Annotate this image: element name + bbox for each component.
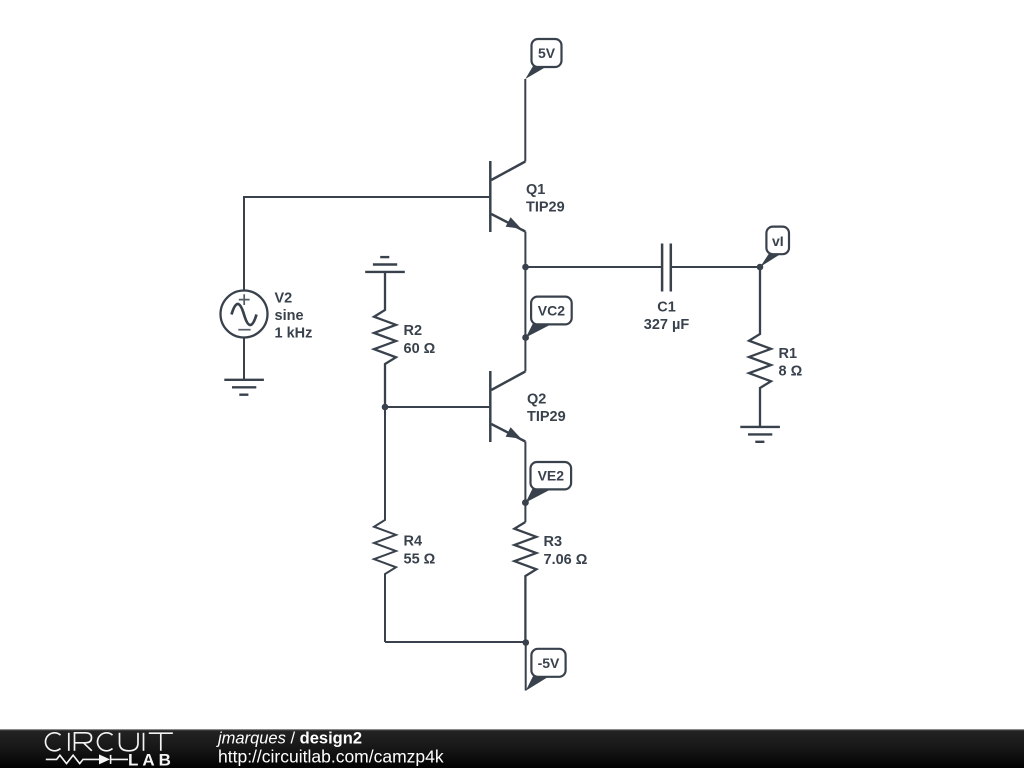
ground (under V2) xyxy=(224,380,264,395)
svg-text:R3: R3 xyxy=(544,534,563,550)
label R2 value xyxy=(404,323,436,357)
resistor R3 xyxy=(514,522,536,642)
wire: Q2 emitter down to R3 xyxy=(524,442,526,523)
Q2 emitter arrow xyxy=(506,427,522,439)
Q1 emitter arrow xyxy=(506,217,522,229)
power flag 5V xyxy=(525,39,561,79)
svg-text:R4: R4 xyxy=(404,534,423,550)
voltage source V2 xyxy=(221,291,268,338)
label C1 value xyxy=(644,300,690,334)
wire: V2 bottom lead xyxy=(243,338,245,380)
svg-text:LAB: LAB xyxy=(128,751,175,768)
ground (inverted, above R2) xyxy=(365,257,405,272)
ground (under R1) xyxy=(740,427,780,442)
svg-text:jmarques / design2: jmarques / design2 xyxy=(216,730,362,748)
label Q1 xyxy=(526,182,565,216)
svg-text:-5V: -5V xyxy=(538,655,560,671)
net flag VC2 xyxy=(522,297,572,341)
svg-text:R1: R1 xyxy=(779,346,798,362)
svg-text:VC2: VC2 xyxy=(538,303,565,319)
svg-text:5V: 5V xyxy=(538,45,556,61)
wire: node down to Q2 collector xyxy=(524,267,526,372)
svg-text:V2: V2 xyxy=(275,291,293,307)
svg-text:60 Ω: 60 Ω xyxy=(404,341,436,357)
net flag VE2 xyxy=(522,462,571,506)
logo CIRCUIT (drawn letters) xyxy=(45,733,172,751)
wire: bottom rail R4 to R3 xyxy=(385,641,526,643)
label R4 value xyxy=(404,534,436,568)
svg-text:55 Ω: 55 Ω xyxy=(404,552,436,568)
wire: Q1 emitter down to node xyxy=(524,232,526,268)
junction node (base node) xyxy=(382,404,389,411)
net flag vI xyxy=(760,227,789,267)
junction node (output node) xyxy=(522,264,529,271)
svg-text:Q2: Q2 xyxy=(527,392,546,408)
svg-text:TIP29: TIP29 xyxy=(527,409,566,425)
wire: Q2 base from node xyxy=(385,406,489,408)
wire: stub to -5V anchor xyxy=(525,643,527,691)
logo resistor-diode glyph xyxy=(46,755,128,764)
label V2 value xyxy=(275,291,313,342)
wire: node to C1 left plate xyxy=(526,266,663,268)
wire: C1 right plate to vI node xyxy=(671,266,760,268)
resistor R1 xyxy=(749,267,771,427)
svg-text:sine: sine xyxy=(275,308,304,324)
svg-text:7.06 Ω: 7.06 Ω xyxy=(544,552,588,568)
junction node vI xyxy=(757,264,764,271)
transistor Q1 xyxy=(490,161,525,232)
footer bar xyxy=(0,729,1024,768)
svg-text:http://circuitlab.com/camzp4k: http://circuitlab.com/camzp4k xyxy=(218,747,444,767)
svg-text:vI: vI xyxy=(772,233,784,249)
wire: Q1 collector up to 5V xyxy=(524,79,526,162)
capacitor C1 xyxy=(662,244,671,292)
svg-text:Q1: Q1 xyxy=(526,182,545,198)
label Q2 xyxy=(527,392,566,426)
junction node (bottom rail) xyxy=(523,639,530,646)
svg-text:R2: R2 xyxy=(404,323,423,339)
svg-text:TIP29: TIP29 xyxy=(526,200,565,216)
transistor Q2 xyxy=(490,371,525,442)
svg-text:1 kHz: 1 kHz xyxy=(275,326,313,342)
resistor R2 xyxy=(374,272,396,407)
label R1 value xyxy=(779,346,803,380)
label R3 value xyxy=(544,534,588,568)
svg-text:8 Ω: 8 Ω xyxy=(779,364,803,380)
svg-text:327 µF: 327 µF xyxy=(644,317,690,333)
svg-text:VE2: VE2 xyxy=(538,468,565,484)
wire: V2 top to Q1 base xyxy=(244,197,489,291)
power flag -5V xyxy=(526,649,566,691)
svg-text:C1: C1 xyxy=(657,300,676,316)
resistor R4 xyxy=(374,407,396,642)
